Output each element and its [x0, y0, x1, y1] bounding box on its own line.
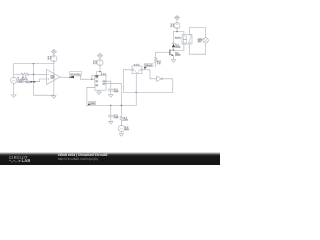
wire SW right to inverter	[142, 70, 157, 79]
source V4	[118, 125, 124, 131]
wire output to U2	[80, 75, 95, 79]
wire mid horizontal net	[123, 91, 172, 93]
capacitor C2	[108, 115, 113, 117]
value label V4	[125, 126, 129, 131]
svg-text:R4: R4	[116, 116, 119, 119]
wire U2 pin3 to lower rail	[87, 87, 95, 105]
svg-text:LM7: LM7	[51, 77, 56, 80]
probe label BZ box	[144, 64, 153, 67]
wire V1 lower stem	[13, 83, 15, 95]
wire collector node	[174, 44, 184, 50]
wire base Q1	[156, 51, 170, 53]
wire U2 pin OUT to C1	[106, 81, 111, 89]
wire U2 pin CV down to R4	[106, 84, 121, 117]
svg-text:RLY1: RLY1	[175, 36, 182, 39]
source V3	[174, 23, 180, 29]
wire to non-inverting input	[36, 79, 46, 82]
ground below V4	[119, 132, 123, 137]
resistor R1	[21, 73, 29, 76]
svg-text:1N41: 1N41	[175, 45, 181, 48]
ground below V1	[11, 95, 16, 98]
wire left vertical net	[33, 64, 35, 96]
resistor R2	[155, 52, 158, 66]
value label R1	[22, 76, 27, 81]
inverter buffer U3	[157, 76, 163, 81]
value label V2	[48, 55, 52, 60]
node junction rail/C2	[110, 105, 112, 107]
CircuitLab logo	[6, 153, 56, 165]
probe flag OUT pointer	[68, 76, 74, 79]
svg-text:12V: 12V	[198, 40, 202, 43]
ground below U2	[97, 90, 101, 95]
value label D1	[175, 43, 181, 48]
wire C2 top lead	[110, 105, 112, 115]
node junction rail/R4	[121, 105, 123, 107]
node junction top rail	[33, 63, 35, 65]
svg-text:555: 555	[101, 73, 107, 76]
watermark credit text	[58, 153, 108, 157]
wire op-amp output	[60, 76, 68, 78]
wire lower rail	[87, 104, 136, 106]
wire op-amp supply vertical	[53, 62, 55, 95]
node junction R1/vertical	[33, 74, 35, 76]
value label R2	[157, 60, 161, 65]
probe flag IN label	[25, 80, 37, 83]
source V1	[11, 77, 17, 83]
probe flag BZ pointer	[144, 67, 147, 69]
ground below C1	[109, 91, 113, 97]
svg-text:V(th): V(th)	[89, 102, 95, 105]
svg-text:2N39: 2N39	[175, 53, 181, 56]
svg-text:V(out1): V(out1)	[71, 73, 81, 76]
svg-text:60Hz: 60Hz	[125, 128, 129, 131]
op-amp OA1	[47, 70, 60, 85]
value label V3	[171, 23, 175, 28]
svg-text:LAB: LAB	[22, 158, 31, 163]
svg-text:BZ1: BZ1	[134, 63, 140, 66]
ground below C2	[109, 117, 113, 124]
ground below Q1	[171, 60, 175, 63]
source V5	[97, 60, 103, 66]
supply flag above V2	[51, 49, 56, 55]
wire top-left rail	[14, 63, 54, 65]
svg-text:V(in): V(in)	[25, 80, 31, 83]
value label C2	[114, 114, 119, 119]
node junction mid net	[135, 92, 137, 94]
wire SW bottom stub	[135, 74, 137, 106]
value label Q1	[175, 51, 181, 56]
node junction U2 top	[99, 71, 100, 72]
svg-text:10nF: 10nF	[114, 90, 119, 93]
speaker SW1 box	[132, 66, 142, 74]
IC U2 timer box	[95, 75, 106, 90]
ground below op-amp	[52, 95, 56, 98]
node junction collector	[173, 50, 174, 51]
diode D1	[172, 32, 175, 50]
probe label TH box	[89, 101, 96, 105]
value label C1	[114, 88, 119, 93]
supply flag above V5	[97, 53, 102, 59]
wire R4 to V4	[120, 122, 122, 126]
watermark bar	[0, 152, 220, 165]
node junction V3 stem	[176, 31, 178, 33]
wire R1 to inverting input	[29, 73, 47, 75]
svg-text:1kHz: 1kHz	[17, 81, 23, 84]
wire bottom rail	[34, 94, 54, 96]
source V2	[51, 56, 57, 62]
wire relay switch loop	[189, 28, 205, 55]
resistor R4	[120, 116, 123, 121]
probe label OUT box	[70, 71, 82, 76]
wire left vertical to SW box	[123, 70, 132, 93]
wire V3 to relay and diode	[174, 29, 184, 35]
probe flag TH pointer	[87, 104, 91, 106]
transistor Q1	[170, 49, 174, 60]
supply flag above V3	[174, 16, 179, 23]
value label V1	[17, 77, 24, 84]
capacitor C1	[108, 89, 113, 91]
value label R4	[116, 116, 128, 122]
svg-text:100: 100	[124, 119, 129, 122]
relay K1	[182, 35, 192, 44]
value label LMP1	[198, 38, 204, 43]
wire V1 upper stem	[13, 64, 15, 78]
lamp LMP1	[203, 38, 208, 43]
wire R1 left lead	[14, 73, 21, 75]
svg-text:1k: 1k	[157, 62, 160, 65]
svg-text:V(buz): V(buz)	[145, 64, 153, 67]
wire inverter output loop	[163, 79, 173, 93]
node junction probe	[33, 81, 35, 83]
wire U2 top pins	[97, 66, 102, 75]
value label V5	[93, 60, 97, 65]
